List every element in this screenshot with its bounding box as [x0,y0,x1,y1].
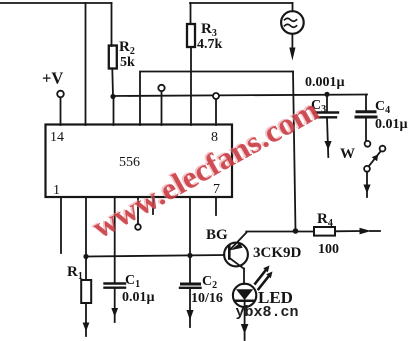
arrow below C1 [111,308,118,317]
svg-text:BG: BG [206,227,228,243]
wire top rail right [190,2,293,4]
arrow below switch [363,185,370,194]
svg-text:4.7k: 4.7k [197,37,223,52]
resistor R2 [109,3,117,96]
svg-text:3CK9D: 3CK9D [253,245,302,261]
svg-text:0.01µ: 0.01µ [122,290,155,305]
AC signal source [281,3,304,50]
svg-text:W: W [340,146,355,162]
svg-text:+V: +V [42,69,63,88]
LED flash arrows [255,266,272,290]
terminal circle below IC x=138 [135,197,141,230]
arrow below R1 [83,323,90,332]
switch W [364,141,385,197]
wire stub below terminal to IC [215,99,217,125]
resistor R4 [314,227,361,236]
wire top rail to IC pin (x=85.5) [85,3,87,125]
wire pin1 stub down [60,197,62,253]
capacitor C2 [180,197,201,327]
wire stub pin x=216 [215,197,217,215]
node collector / vertical X [293,228,299,234]
svg-text:10/16: 10/16 [191,291,223,306]
svg-text:14: 14 [50,130,64,145]
node C3 on net B [324,92,329,97]
wire net A (corner at x=140) [140,72,293,126]
wire vertical from net A corner down to collector rail [293,72,296,232]
svg-text:556: 556 [119,155,140,170]
wire top-left rail [0,2,112,4]
capacitor C3 [314,94,338,157]
svg-text:ybx8.cn: ybx8.cn [236,304,299,321]
op-amp/IC U1 556 box [46,125,233,198]
terminal +V [57,91,64,125]
arrow below C3 [324,141,331,150]
terminal circle on net B x=216 [213,93,219,99]
wire stub below terminal [161,91,163,125]
svg-text:100: 100 [318,242,339,257]
arrow output right [360,228,372,235]
svg-text:7: 7 [213,182,220,197]
wire collector rail [246,231,314,233]
resistor R1 [81,197,91,336]
capacitor C4 [356,95,376,141]
svg-text:0.01µ: 0.01µ [375,117,408,132]
arrow signal into circuit [289,48,295,61]
wire transistor base net [86,255,224,257]
wire stub junction to IC top [113,96,115,125]
transistor BG 3CK9D [224,233,248,285]
resistor R3 [187,3,195,125]
arrow below LED [241,324,249,334]
arrow below C2 [186,310,193,320]
node junction R2 / net B [110,94,115,99]
svg-text:1: 1 [53,183,60,198]
LED D1 [233,284,256,340]
svg-text:0.001µ: 0.001µ [305,75,345,90]
capacitor C1 [105,197,126,322]
svg-text:5k: 5k [120,55,135,70]
wire stub pin x=153 [152,197,154,214]
wire after output arrow [370,230,380,232]
wire net B horizontal [113,95,367,97]
terminal circle on stub x=161.5 [158,85,164,91]
